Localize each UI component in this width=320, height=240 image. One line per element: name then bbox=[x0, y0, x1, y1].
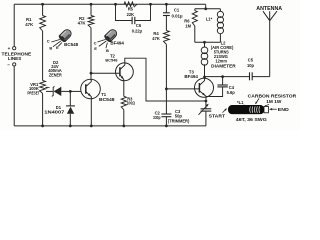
svg-text:22K: 22K bbox=[127, 12, 135, 17]
svg-text:BC548: BC548 bbox=[99, 97, 115, 102]
svg-text:47K: 47K bbox=[152, 36, 160, 41]
svg-text:1N4007: 1N4007 bbox=[44, 110, 65, 115]
svg-text:C5: C5 bbox=[248, 58, 254, 63]
svg-text:1M: 1M bbox=[185, 23, 191, 28]
svg-text:(TRIMMER): (TRIMMER) bbox=[168, 118, 190, 123]
svg-text:BF494: BF494 bbox=[184, 74, 198, 79]
svg-text:0.22µ: 0.22µ bbox=[132, 28, 143, 33]
svg-text:START: START bbox=[209, 114, 226, 119]
svg-text:+: + bbox=[8, 46, 11, 51]
svg-text:47K: 47K bbox=[78, 21, 87, 26]
svg-text:L1*: L1* bbox=[206, 16, 213, 21]
svg-text:0.01µ: 0.01µ bbox=[172, 13, 184, 18]
svg-text:C: C bbox=[94, 41, 97, 46]
svg-text:ZENER: ZENER bbox=[49, 72, 62, 77]
svg-text:E: E bbox=[56, 45, 59, 50]
svg-text:E: E bbox=[94, 46, 97, 51]
svg-text:BC548: BC548 bbox=[64, 42, 79, 47]
svg-text:5.6p: 5.6p bbox=[227, 90, 236, 95]
svg-text:−: − bbox=[7, 62, 10, 67]
svg-text:10p: 10p bbox=[247, 63, 255, 68]
svg-text:CARBON RESISTOR: CARBON RESISTOR bbox=[248, 93, 297, 98]
svg-text:R5: R5 bbox=[128, 7, 134, 12]
svg-text:46T, 36 SWG: 46T, 36 SWG bbox=[236, 117, 267, 122]
svg-text:100Ω: 100Ω bbox=[127, 101, 136, 106]
svg-text:C1: C1 bbox=[174, 8, 180, 13]
svg-text:*L1: *L1 bbox=[237, 100, 244, 105]
svg-text:B: B bbox=[49, 45, 52, 50]
svg-text:LINES: LINES bbox=[8, 56, 22, 61]
svg-text:BF494: BF494 bbox=[110, 41, 124, 46]
svg-text:ANTENNA: ANTENNA bbox=[256, 6, 282, 12]
svg-text:DIAMETER: DIAMETER bbox=[211, 63, 236, 68]
svg-text:B: B bbox=[106, 48, 109, 53]
svg-text:47K: 47K bbox=[25, 22, 34, 27]
svg-text:330p: 330p bbox=[153, 115, 161, 120]
svg-text:END: END bbox=[278, 107, 289, 112]
svg-text:1M 1W: 1M 1W bbox=[266, 99, 281, 104]
svg-text:PRESET: PRESET bbox=[27, 90, 40, 95]
svg-text:BC548: BC548 bbox=[105, 58, 118, 63]
svg-text:C: C bbox=[47, 38, 50, 43]
